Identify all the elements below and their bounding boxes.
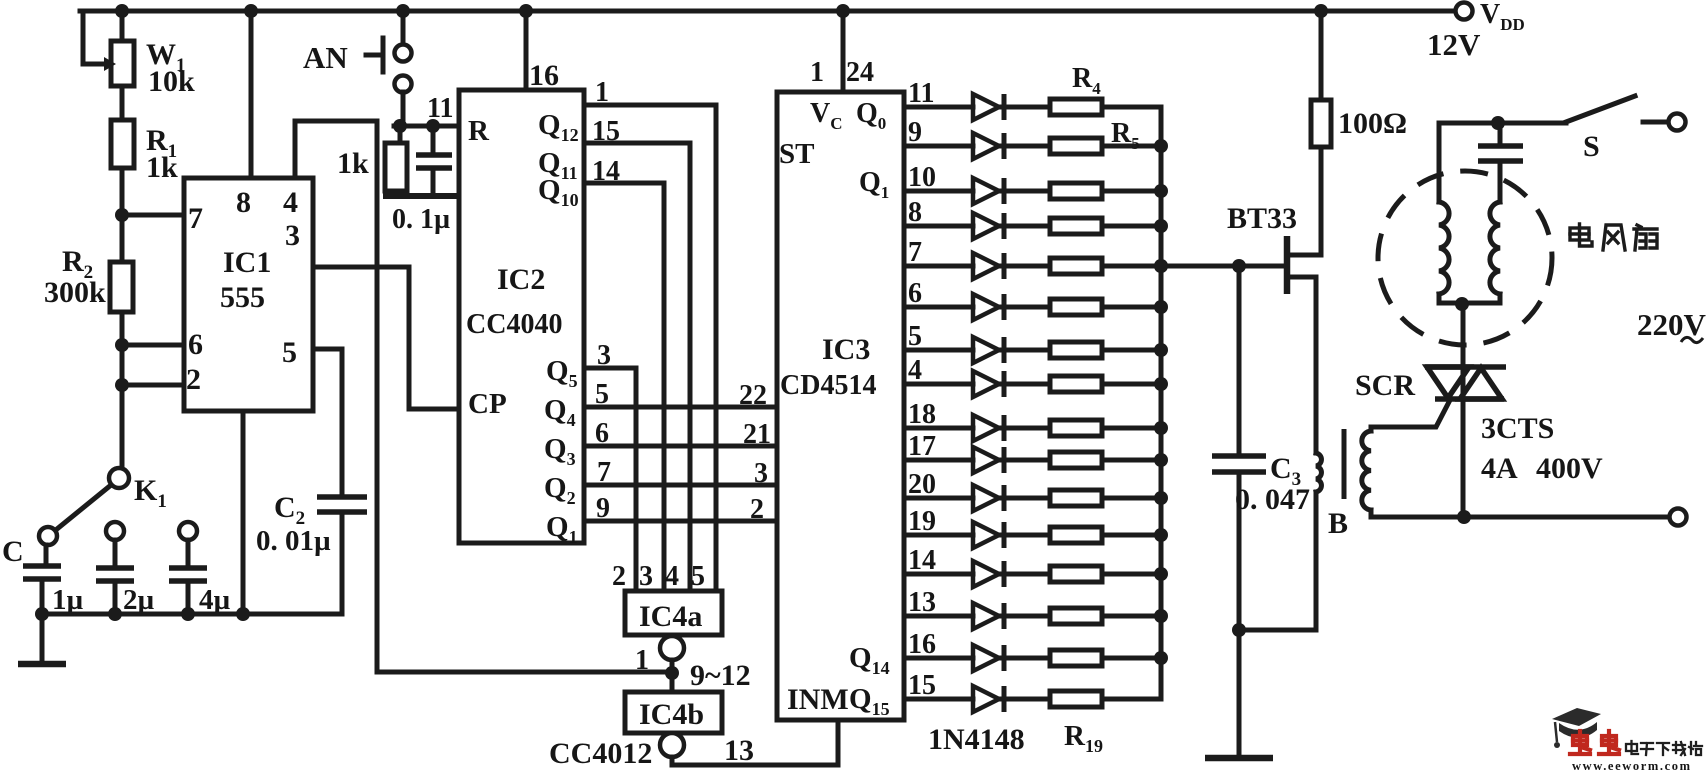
resistor R row 14 bbox=[1050, 608, 1102, 624]
svg-text:3: 3 bbox=[639, 561, 653, 592]
wire IC4b out to IC3 INM bbox=[672, 722, 838, 765]
wire AN to R-pin net bbox=[394, 92, 459, 126]
svg-text:13: 13 bbox=[908, 587, 936, 618]
diode D16 1N4148 row pin 15 bbox=[904, 697, 973, 702]
wire to 220V terminal bbox=[1464, 515, 1669, 520]
svg-text:16: 16 bbox=[529, 59, 559, 92]
wire reset net to gate junction bbox=[377, 670, 672, 675]
svg-text:2: 2 bbox=[750, 494, 764, 525]
diode D6 1N4148 row pin 6 bbox=[904, 305, 973, 310]
svg-text:S: S bbox=[1583, 130, 1600, 163]
svg-text:8: 8 bbox=[236, 186, 251, 219]
svg-text:0. 01µ: 0. 01µ bbox=[256, 525, 331, 557]
svg-text:18: 18 bbox=[908, 399, 936, 430]
resistor R row 9 bbox=[1050, 420, 1102, 436]
svg-text:B: B bbox=[1328, 507, 1348, 540]
wire pin2 stub bbox=[122, 383, 184, 388]
svg-text:8: 8 bbox=[908, 197, 922, 228]
wire C3 node to transformer primary bbox=[1239, 628, 1316, 633]
wire diode common rail bbox=[1159, 107, 1164, 699]
diode D14 1N4148 row pin 13 bbox=[904, 614, 973, 619]
svg-text:IC4a: IC4a bbox=[639, 600, 702, 633]
resistor R row 6 bbox=[1050, 299, 1102, 315]
svg-text:2: 2 bbox=[612, 561, 626, 592]
svg-text:CP: CP bbox=[468, 388, 507, 420]
svg-text:CD4514: CD4514 bbox=[780, 370, 876, 401]
diode D5 1N4148 row pin 7 bbox=[904, 264, 973, 269]
svg-text:Q1: Q1 bbox=[859, 167, 889, 202]
svg-text:3: 3 bbox=[754, 458, 768, 489]
diode D13 1N4148 row pin 14 bbox=[904, 572, 973, 577]
svg-text:15: 15 bbox=[908, 670, 936, 701]
svg-text:VC: VC bbox=[810, 98, 843, 133]
svg-text:IC4b: IC4b bbox=[639, 698, 704, 731]
wire IC1 pin8 to VDD bbox=[249, 11, 254, 178]
resistor R row 3 bbox=[1050, 183, 1102, 199]
wire fan to triac to 220V bbox=[1461, 303, 1466, 517]
svg-text:20: 20 bbox=[908, 469, 936, 500]
wire IC2 Q2 to IC3 pin3 bbox=[584, 483, 777, 488]
svg-text:Q15: Q15 bbox=[849, 683, 890, 719]
diode D3 1N4148 row pin 10 bbox=[904, 189, 973, 194]
ground (C3) bbox=[1205, 755, 1273, 762]
resistor R row 16 bbox=[1050, 691, 1102, 707]
wire IC2 Q4 to IC3 pin22 bbox=[584, 405, 777, 410]
svg-text:21: 21 bbox=[743, 419, 771, 450]
svg-text:C2: C2 bbox=[274, 491, 305, 529]
op-amp U IC2 CC4040 counter bbox=[459, 90, 584, 543]
diode D2 1N4148 row pin 9 bbox=[904, 144, 973, 149]
svg-text:555: 555 bbox=[220, 281, 265, 314]
capacitor 0.1u bbox=[431, 126, 436, 155]
svg-text:2: 2 bbox=[186, 363, 201, 396]
svg-text:4: 4 bbox=[908, 355, 922, 386]
motor fan dashed housing bbox=[1378, 171, 1552, 345]
svg-text:IC2: IC2 bbox=[497, 263, 545, 296]
capacitor C 1u bbox=[44, 545, 49, 566]
svg-text:AN: AN bbox=[303, 40, 348, 75]
resistor R row 7 bbox=[1050, 342, 1102, 358]
thyristor SCR 3CTS triac bbox=[1425, 367, 1506, 399]
svg-text:12V: 12V bbox=[1427, 27, 1481, 62]
svg-text:10k: 10k bbox=[148, 65, 195, 98]
resistor R2 300k bbox=[110, 262, 133, 312]
svg-text:INM: INM bbox=[787, 683, 849, 716]
svg-text:K1: K1 bbox=[134, 474, 167, 512]
node VDD terminal bbox=[1456, 3, 1473, 20]
svg-text:IC3: IC3 bbox=[822, 333, 870, 366]
svg-text:www.eeworm.com: www.eeworm.com bbox=[1572, 759, 1692, 771]
resistor R row 2 bbox=[1050, 138, 1102, 154]
svg-text:Q0: Q0 bbox=[856, 98, 886, 133]
diode D4 1N4148 row pin 8 bbox=[904, 224, 973, 229]
svg-text:VDD: VDD bbox=[1480, 0, 1525, 34]
resistor 1k (reset) bbox=[398, 126, 403, 143]
capacitor 4u bbox=[179, 522, 197, 540]
potentiometer W1 10k bbox=[83, 11, 107, 64]
wire IC1 pin4 reset net bbox=[295, 121, 377, 178]
svg-text:BT33: BT33 bbox=[1227, 202, 1297, 235]
wire IC2 Q3 to IC3 pin21 bbox=[584, 444, 777, 449]
svg-text:400V: 400V bbox=[1536, 452, 1603, 485]
svg-text:R5: R5 bbox=[1111, 118, 1140, 153]
svg-text:0. 1µ: 0. 1µ bbox=[392, 204, 450, 235]
op-amp U IC3 CD4514 decoder bbox=[777, 92, 904, 720]
svg-text:1N4148: 1N4148 bbox=[928, 723, 1025, 756]
wire secondary bottom to 220V line bbox=[1371, 510, 1464, 517]
fan aux winding bbox=[1490, 202, 1500, 294]
svg-text:1: 1 bbox=[810, 57, 824, 88]
svg-text:100Ω: 100Ω bbox=[1338, 107, 1407, 140]
svg-text:16: 16 bbox=[908, 629, 936, 660]
switch K1 selector bbox=[109, 468, 129, 488]
svg-text:4A: 4A bbox=[1481, 452, 1518, 485]
svg-text:11: 11 bbox=[908, 78, 934, 109]
resistor R row 13 bbox=[1050, 566, 1102, 582]
switch S bbox=[1566, 96, 1635, 122]
svg-text:220V: 220V bbox=[1637, 307, 1707, 342]
watermark graduation cap icon bbox=[1552, 708, 1601, 726]
wire IC4a out to IC4b in bbox=[670, 660, 675, 692]
svg-text:7: 7 bbox=[908, 237, 922, 268]
svg-text:10: 10 bbox=[908, 162, 936, 193]
capacitor C3 0.047 bbox=[1237, 266, 1242, 456]
svg-text:4: 4 bbox=[665, 561, 679, 592]
wire IC1 pin3 to IC2 CP bbox=[313, 267, 459, 409]
wire IC2 Q10 to IC4a in3 bbox=[584, 183, 664, 591]
svg-text:5: 5 bbox=[691, 561, 705, 592]
svg-text:9: 9 bbox=[908, 117, 922, 148]
wire reset net down to IC4a output bbox=[375, 121, 380, 672]
node 220V terminal bbox=[1670, 509, 1687, 526]
diode D11 1N4148 row pin 20 bbox=[904, 496, 973, 501]
watermark chong chong red characters bbox=[1570, 731, 1590, 754]
wire R1 to node pin7 and down bbox=[120, 168, 125, 262]
fan main winding bbox=[1437, 123, 1442, 202]
transformer B primary coil bbox=[1316, 453, 1321, 492]
capacitor C2 0.01u bbox=[317, 497, 367, 512]
diode D9 1N4148 row pin 18 bbox=[904, 426, 973, 431]
resistor R row 15 bbox=[1050, 650, 1102, 666]
diode D15 1N4148 row pin 16 bbox=[904, 656, 973, 661]
svg-text:Q12: Q12 bbox=[538, 109, 579, 145]
resistor R row 5 bbox=[1050, 258, 1102, 274]
resistor R row 8 bbox=[1050, 376, 1102, 392]
wire IC2 pin16 to VDD bbox=[524, 11, 529, 90]
wire IC2 Q11 to IC4a in4 bbox=[584, 143, 690, 591]
diode D7 1N4148 row pin 5 bbox=[904, 348, 973, 353]
wire R2 down to K1 bbox=[120, 312, 125, 468]
wire VDD top rail bbox=[80, 9, 1455, 14]
svg-text:Q3: Q3 bbox=[544, 433, 576, 469]
svg-text:R19: R19 bbox=[1064, 720, 1103, 756]
capacitor 2u bbox=[106, 522, 124, 540]
svg-text:CC4040: CC4040 bbox=[466, 309, 562, 340]
wire pin7 stub bbox=[122, 213, 184, 218]
transformer B core bbox=[1342, 429, 1347, 499]
wire IC3 pin24 to VDD bbox=[841, 11, 846, 92]
wire IC2 Q5 to IC4a in2 bbox=[584, 368, 636, 591]
wire IC1 pin5 to C2 bbox=[313, 349, 342, 497]
svg-text:Q2: Q2 bbox=[544, 472, 576, 508]
resistor R row 10 bbox=[1050, 452, 1102, 468]
svg-text:3CTS: 3CTS bbox=[1481, 412, 1554, 445]
svg-text:7: 7 bbox=[188, 202, 203, 235]
resistor R row 11 bbox=[1050, 490, 1102, 506]
watermark site name characters bbox=[1626, 741, 1702, 755]
svg-text:11: 11 bbox=[427, 93, 453, 124]
resistor R row 12 bbox=[1050, 527, 1102, 543]
svg-text:19: 19 bbox=[908, 506, 936, 537]
svg-text:4: 4 bbox=[283, 186, 298, 219]
resistor R row 4 bbox=[1050, 218, 1102, 234]
svg-text:CC4012: CC4012 bbox=[549, 737, 652, 770]
op-amp U IC1 555 timer bbox=[184, 178, 313, 411]
diode D12 1N4148 row pin 19 bbox=[904, 533, 973, 538]
transistor BT33 unijunction bbox=[1284, 236, 1291, 294]
svg-text:IC1: IC1 bbox=[223, 246, 271, 279]
diode D1 1N4148 row pin 11 bbox=[904, 105, 973, 110]
gate IC4a CC4012 bbox=[625, 591, 722, 635]
svg-text:Q5: Q5 bbox=[546, 355, 578, 391]
label dian-feng-shan (electric fan) bbox=[1570, 224, 1657, 250]
resistor R1 1k bbox=[111, 120, 134, 168]
svg-text:5: 5 bbox=[908, 321, 922, 352]
wire secondary top to SCR gate bbox=[1371, 400, 1450, 431]
resistor R row 1 bbox=[1050, 99, 1102, 115]
svg-text:C: C bbox=[2, 535, 24, 568]
svg-text:2µ: 2µ bbox=[123, 584, 155, 616]
svg-text:1k: 1k bbox=[146, 151, 178, 184]
svg-text:ST: ST bbox=[779, 138, 814, 170]
wire IC2 Q12 to IC4a in5 bbox=[584, 105, 716, 591]
svg-text:6: 6 bbox=[908, 278, 922, 309]
diode D10 1N4148 row pin 17 bbox=[904, 458, 973, 463]
svg-text:SCR: SCR bbox=[1355, 369, 1415, 402]
svg-text:13: 13 bbox=[724, 734, 754, 767]
svg-text:24: 24 bbox=[846, 57, 874, 88]
svg-text:Q14: Q14 bbox=[849, 642, 890, 678]
svg-text:17: 17 bbox=[908, 431, 936, 462]
svg-text:0. 047: 0. 047 bbox=[1235, 483, 1310, 516]
svg-text:300k: 300k bbox=[44, 276, 106, 309]
svg-text:3: 3 bbox=[285, 219, 300, 252]
wire fan top bbox=[1439, 121, 1566, 126]
switch AN push button bbox=[401, 11, 406, 44]
svg-text:6: 6 bbox=[188, 328, 203, 361]
svg-text:R: R bbox=[468, 115, 490, 147]
svg-text:Q1: Q1 bbox=[546, 511, 578, 547]
resistor 100 ohm bbox=[1319, 11, 1324, 100]
wire W1 to R1 bbox=[120, 86, 125, 120]
svg-text:4µ: 4µ bbox=[199, 584, 231, 616]
svg-text:9~12: 9~12 bbox=[690, 659, 751, 692]
svg-text:14: 14 bbox=[908, 545, 936, 576]
wire IC1 ground drop bbox=[241, 411, 246, 614]
ground (left) bbox=[40, 614, 45, 662]
svg-text:R4: R4 bbox=[1072, 63, 1101, 98]
svg-text:22: 22 bbox=[739, 380, 767, 411]
wire cap bottom rail bbox=[42, 612, 342, 617]
svg-text:1µ: 1µ bbox=[52, 584, 84, 616]
diode D8 1N4148 row pin 4 bbox=[904, 382, 973, 387]
wire pin6 stub bbox=[122, 343, 184, 348]
wire IC2 Q1 to IC3 pin2 bbox=[584, 519, 777, 524]
gate IC4b CC4012 bbox=[625, 692, 722, 733]
ground (1k / 0.1u) bbox=[383, 193, 460, 199]
svg-text:1k: 1k bbox=[337, 147, 369, 180]
wire rail row7 to BT33 emitter bbox=[1161, 264, 1287, 269]
svg-text:Q4: Q4 bbox=[544, 394, 576, 430]
svg-text:5: 5 bbox=[282, 336, 297, 369]
transformer B secondary coil bbox=[1362, 431, 1371, 510]
capacitor fan phase cap bbox=[1498, 123, 1503, 146]
